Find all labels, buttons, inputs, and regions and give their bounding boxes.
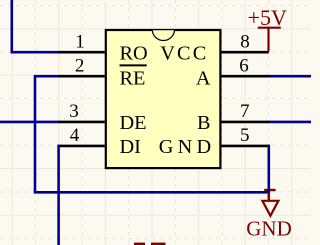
power port GND (triangle): [262, 192, 278, 216]
wire: pin 3 to left edge: [0, 121, 59, 124]
clipped designator text at bottom edge: [134, 243, 166, 245]
svg-text:B: B: [197, 112, 211, 134]
svg-text:RE: RE: [120, 68, 146, 90]
pin 1 stub: [59, 51, 105, 54]
pin 6 stub: [222, 75, 269, 78]
svg-text:GND: GND: [159, 136, 216, 158]
svg-text:2: 2: [75, 55, 85, 76]
wire: pin 6 (A) to right edge: [269, 75, 311, 78]
svg-text:RO: RO: [120, 42, 148, 64]
wire: pin 2 (RE) down to ground rail: [35, 76, 269, 192]
notch: [152, 30, 174, 41]
IC U1 (MAX485 RS-485 transceiver) body: [106, 30, 221, 169]
pin 5 stub: [222, 145, 269, 148]
svg-text:5: 5: [240, 125, 250, 146]
pin 4 stub: [59, 145, 105, 148]
svg-text:3: 3: [69, 101, 79, 122]
wire: pin 4 down to bottom edge: [57, 146, 60, 245]
svg-text:4: 4: [70, 125, 80, 146]
svg-text:8: 8: [240, 32, 250, 53]
wire: pin 7 (B) to right edge: [269, 121, 311, 124]
pin 8 stub: [222, 51, 269, 54]
wire: pin 5 (GND) down to ground junction: [267, 146, 270, 192]
svg-text:DI: DI: [120, 136, 142, 158]
svg-text:+5V: +5V: [248, 5, 287, 30]
svg-text:7: 7: [240, 101, 250, 122]
svg-text:DE: DE: [120, 112, 147, 134]
svg-text:1: 1: [75, 31, 85, 52]
pin 7 stub: [222, 121, 269, 124]
pin 3 stub: [59, 121, 105, 124]
wire: net to pin 1 (top-left vertical + horizontal): [12, 0, 59, 52]
power port +5V: [258, 28, 281, 52]
pin 2 stub: [59, 75, 105, 78]
svg-text:6: 6: [239, 55, 249, 76]
svg-text:VCC: VCC: [160, 42, 208, 64]
svg-text:A: A: [196, 68, 211, 90]
svg-text:GND: GND: [246, 216, 292, 240]
GND power port cross (under wires): [264, 187, 275, 201]
